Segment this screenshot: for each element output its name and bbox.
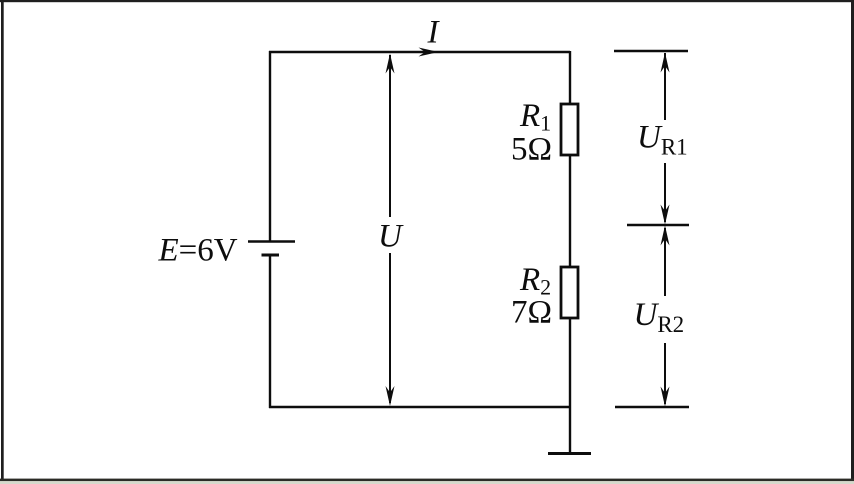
voltage arrow U line lower [389,253,391,403]
ground [548,452,591,455]
wire right lower [569,318,571,407]
wire left lower [269,256,271,408]
wire left upper [269,51,271,241]
resistor R2 [561,267,578,318]
voltage arrow U head up [386,54,395,74]
tick bar top [614,50,688,53]
svg-text:U: U [378,219,404,255]
battery long plate [248,240,295,243]
voltage arrow U line upper [389,55,391,217]
wire to ground [569,407,571,453]
voltage arrow UR1 line lower [664,163,666,222]
voltage arrow UR1 head down [661,205,670,225]
svg-text:I: I [427,15,441,51]
voltage arrow U head down [386,386,395,406]
wire top [269,51,570,53]
wire bottom [269,406,571,408]
voltage arrow UR1 line upper [664,53,666,120]
tick bar bottom [615,406,689,409]
svg-text:E=6V: E=6V [158,233,238,269]
wire middle right [569,155,571,268]
voltage arrow UR2 line lower [664,343,666,404]
svg-text:7Ω: 7Ω [511,295,552,331]
tick bar middle [627,224,689,227]
voltage arrow UR2 head down [661,387,670,407]
resistor R1 [561,104,578,155]
battery short plate [262,254,280,257]
wire right upper [569,51,571,105]
svg-text:5Ω: 5Ω [511,132,552,168]
voltage arrow UR2 head up [661,226,670,246]
voltage arrow UR1 head up [661,53,670,73]
current arrow head I [419,48,439,57]
voltage arrow UR2 line upper [664,228,666,296]
